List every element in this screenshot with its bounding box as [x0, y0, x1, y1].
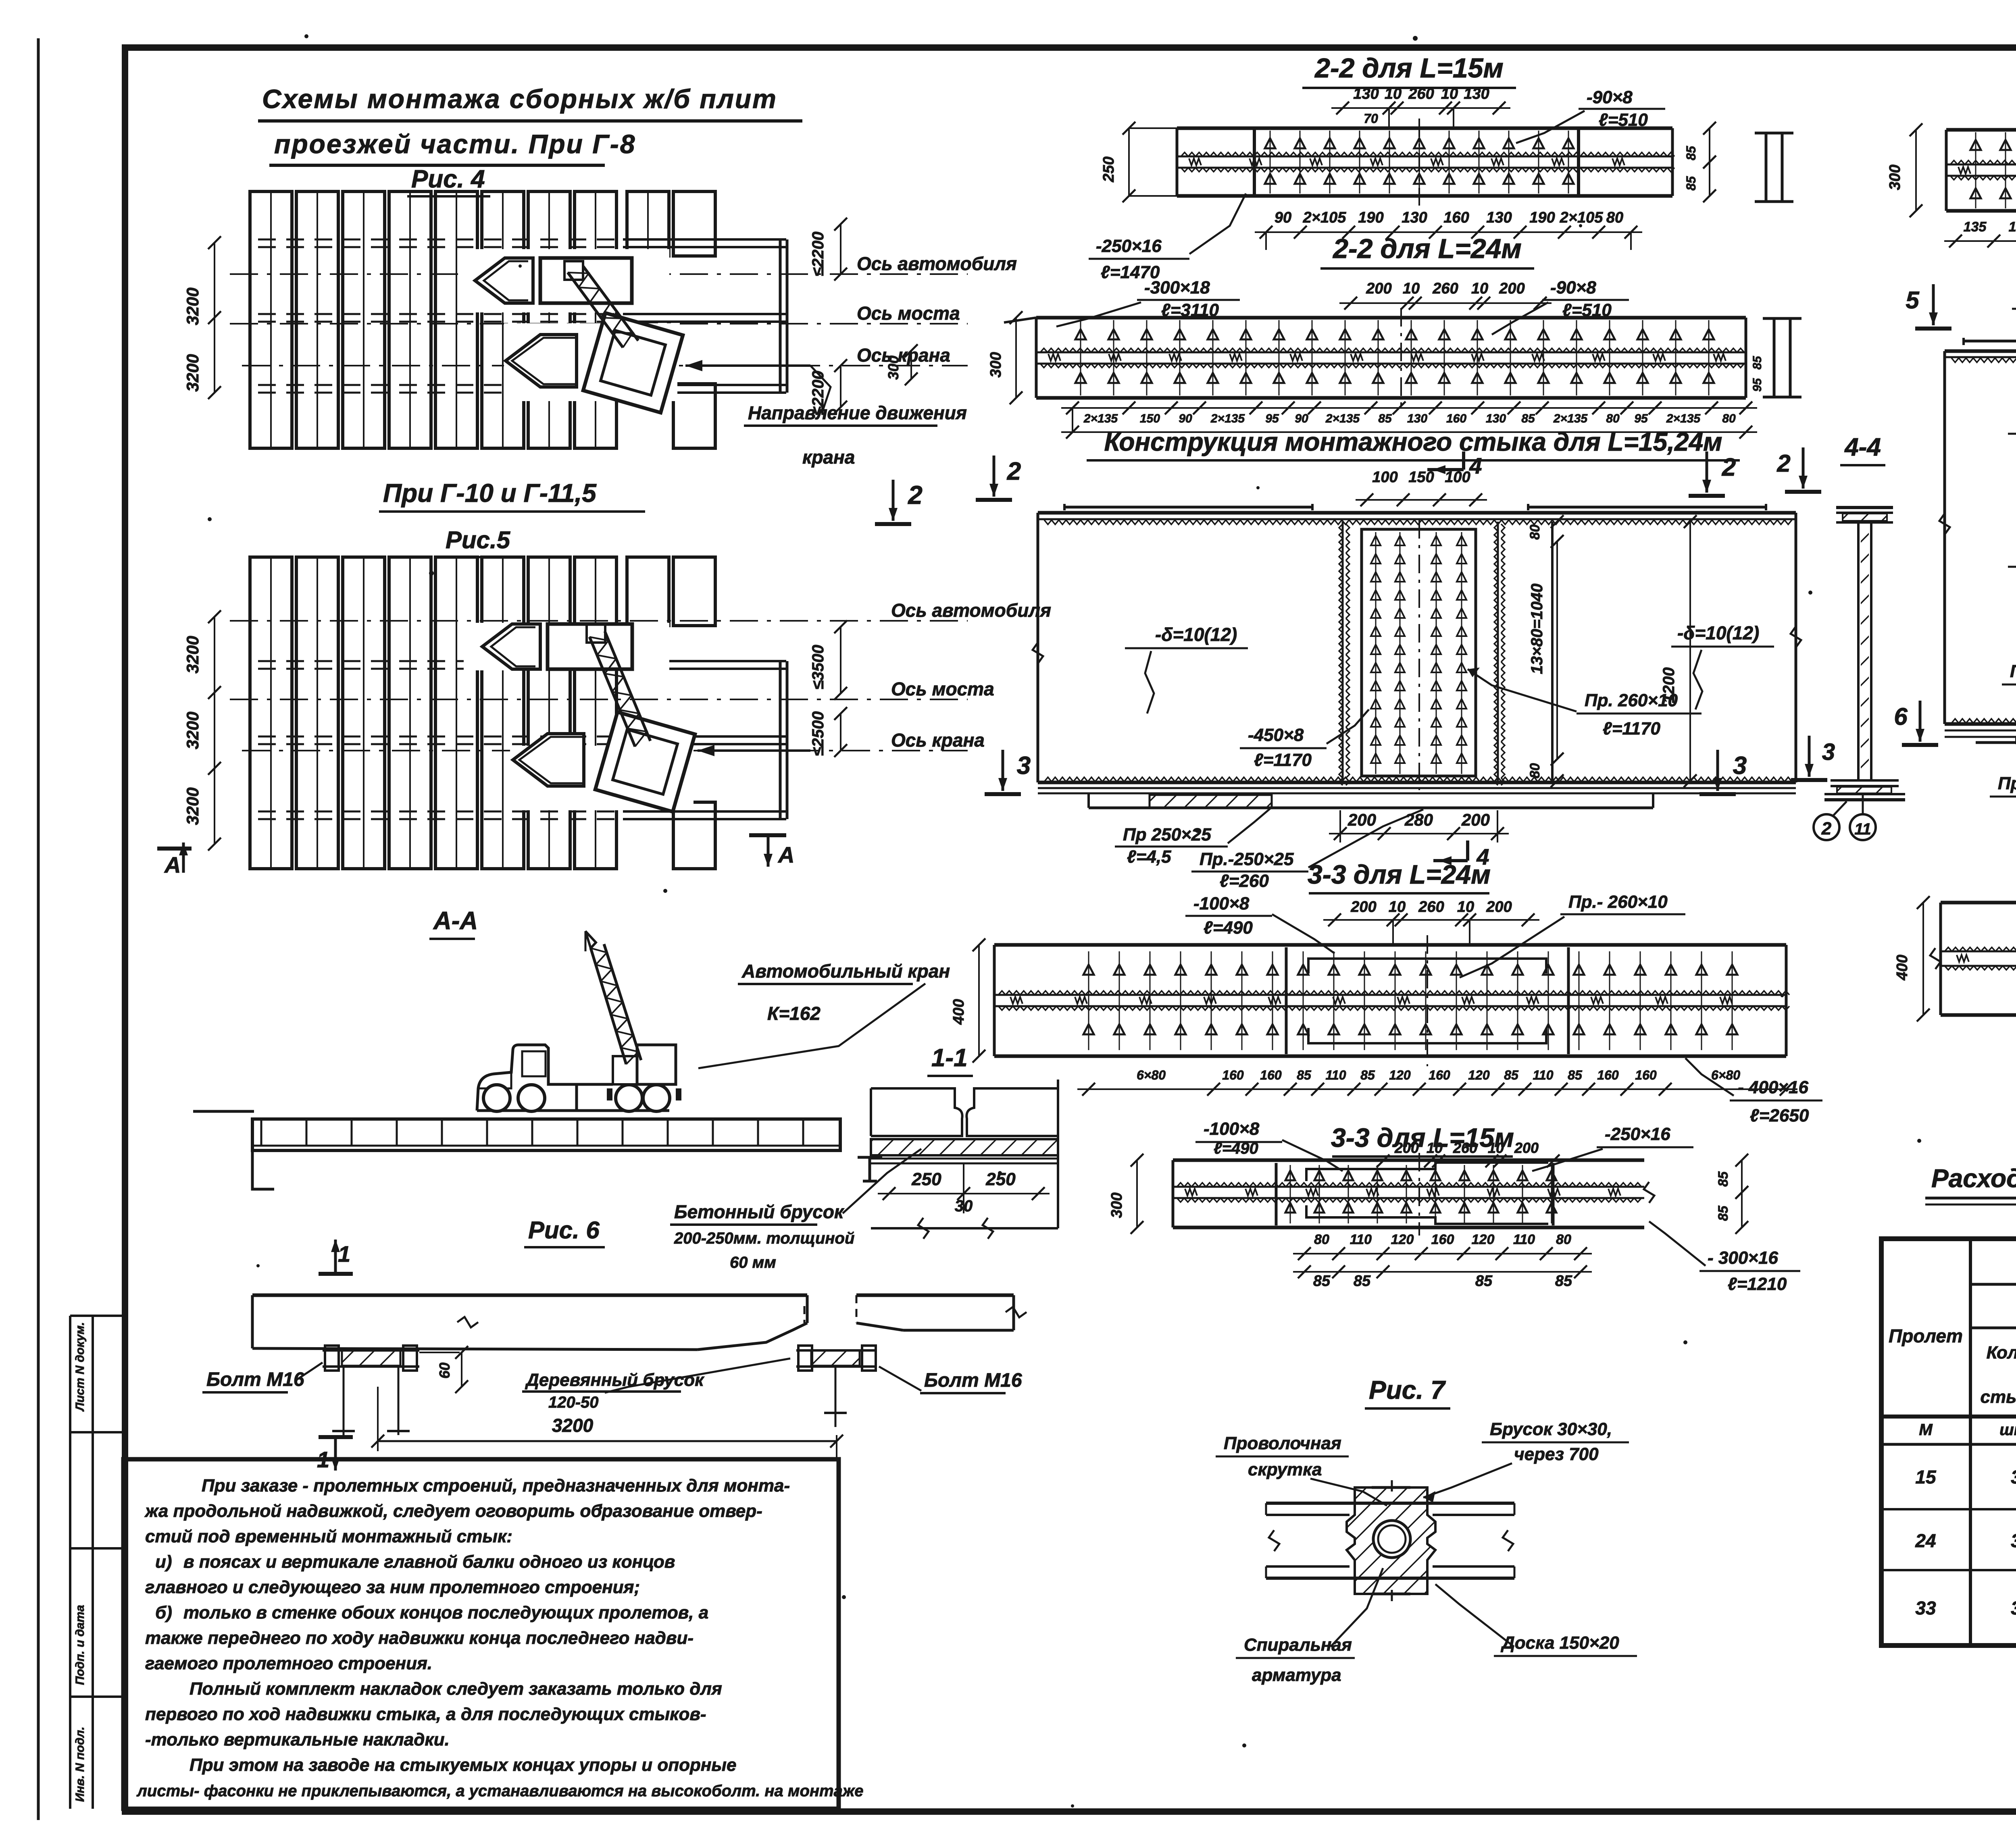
svg-text:85: 85: [1684, 146, 1698, 160]
svg-text:Рис. 6: Рис. 6: [528, 1217, 600, 1244]
svg-text:Рис.5: Рис.5: [446, 526, 511, 553]
svg-text:1: 1: [338, 1241, 350, 1267]
svg-text:ℓ=4,5: ℓ=4,5: [1127, 847, 1171, 867]
svg-text:2: 2: [1821, 819, 1832, 838]
fig6 right bolt assembly: [796, 1346, 876, 1427]
svg-text:11: 11: [1854, 820, 1871, 838]
svg-text:200: 200: [1461, 810, 1490, 829]
section mark 5 left: [1915, 327, 1951, 331]
svg-text:Полный комплект накладок: Полный комплект накладок следует заказат…: [190, 1679, 722, 1699]
crane truck elevation: [477, 931, 681, 1111]
section 1-1 slabs: [871, 1080, 1058, 1228]
svg-text:гаемого пролетного строе: гаемого пролетного строения.: [145, 1654, 432, 1673]
svg-text:А-А: А-А: [433, 907, 478, 935]
svg-text:ℓ=2650: ℓ=2650: [1750, 1106, 1809, 1125]
label -250x16 l=1470: [1089, 193, 1246, 282]
svg-text:главного и следующего за: главного и следующего за ним пролетного …: [145, 1577, 640, 1597]
svg-text:60: 60: [436, 1363, 453, 1379]
section 2-2 L=24 dims above: [1339, 280, 1552, 310]
svg-text:85: 85: [1313, 1273, 1331, 1290]
svg-text:300: 300: [987, 352, 1004, 377]
section mark 4 bottom: [1433, 840, 1489, 870]
svg-text:260: 260: [1453, 1140, 1477, 1156]
svg-text:крана: крана: [802, 447, 855, 468]
svg-text:1200: 1200: [1660, 668, 1678, 703]
svg-text:110: 110: [1325, 1068, 1346, 1082]
section mark 3 left: [985, 792, 1021, 796]
svg-text:Доска 150×20: Доска 150×20: [1500, 1633, 1619, 1653]
svg-text:110: 110: [1513, 1232, 1535, 1247]
fig6 bolt label right: [879, 1367, 1022, 1393]
fig6 section mark 1 top: [319, 1239, 353, 1276]
svg-text:2×135: 2×135: [1083, 412, 1118, 425]
svg-text:250: 250: [1100, 156, 1117, 182]
svg-text:Ось моста: Ось моста: [891, 678, 994, 699]
svg-text:10: 10: [1403, 280, 1420, 297]
svg-text:150: 150: [1140, 412, 1160, 425]
svg-text:ℓ=490: ℓ=490: [1214, 1140, 1258, 1157]
svg-text:Спиральная: Спиральная: [1244, 1635, 1352, 1655]
svg-text:Лист N докум.: Лист N докум.: [73, 1322, 87, 1412]
section 3-3 L=15 strip: [1173, 1153, 1654, 1236]
svg-text:200-250мм. толщиной: 200-250мм. толщиной: [674, 1229, 854, 1247]
label -b=10(12) right: [1671, 622, 1774, 709]
2-2 L15 end section: [1755, 133, 1793, 202]
svg-text:2: 2: [1722, 453, 1736, 481]
svg-text:85: 85: [1684, 176, 1698, 191]
svg-text:200: 200: [1347, 810, 1376, 829]
svg-text:3: 3: [1017, 752, 1031, 780]
svg-text:10: 10: [1457, 899, 1474, 915]
svg-text:200: 200: [1394, 1140, 1419, 1156]
svg-text:200: 200: [1514, 1140, 1539, 1156]
svg-text:160: 160: [1429, 1068, 1450, 1082]
svg-text:150: 150: [1408, 469, 1434, 486]
svg-text:80: 80: [1556, 1232, 1571, 1247]
svg-text:4: 4: [1469, 453, 1482, 478]
fig4 right dimensions: [809, 218, 918, 415]
fig4 truck: [475, 258, 632, 303]
dim 13x80=1040 rotated: [1528, 535, 1564, 766]
svg-text:3: 3: [1733, 752, 1747, 780]
svg-text:200: 200: [1366, 280, 1391, 297]
fig4 crane travel arrow: [685, 360, 831, 411]
svg-text:Брусок 30×30,: Брусок 30×30,: [1490, 1419, 1612, 1439]
2-2 L15 left dim 250: [1100, 122, 1177, 202]
fig6 left beam: [252, 1295, 807, 1350]
svg-text:80: 80: [1722, 412, 1736, 425]
section mark A right: [749, 835, 794, 867]
fig5 left dimensions 3200x3: [183, 610, 221, 851]
svg-text:б): б): [155, 1603, 172, 1623]
section 2 mark near 4-4: [1785, 490, 1821, 494]
label -90x8 l=510 (2-2 L24): [1492, 278, 1629, 335]
svg-text:60 мм: 60 мм: [730, 1254, 776, 1271]
svg-text:300: 300: [1108, 1192, 1125, 1218]
svg-text:80: 80: [1527, 763, 1543, 778]
svg-text:Болт М16: Болт М16: [206, 1369, 304, 1390]
section 4-4 drawing: [1824, 508, 1905, 800]
section 5-5 strip: [1946, 120, 2016, 221]
svg-text:200: 200: [1486, 899, 1512, 915]
3-3 L15 right dims 85 85: [1716, 1154, 1748, 1234]
section 2-2 L=15 dims above: [1331, 85, 1510, 128]
fig4 plate grid: [250, 191, 715, 448]
svg-text:Проволочная: Проволочная: [1224, 1433, 1341, 1453]
fig5 axis auto: [230, 620, 968, 622]
fig6 60 dim: [419, 1346, 468, 1393]
svg-text:Рис. 4: Рис. 4: [411, 165, 485, 193]
section 3-3 L=24 dims above: [1323, 899, 1539, 945]
svg-text:≤3500: ≤3500: [809, 645, 827, 690]
section mark 2 left: [976, 498, 1012, 502]
svg-text:4-4: 4-4: [1844, 433, 1881, 461]
svg-text:Ось автомобиля: Ось автомобиля: [857, 253, 1017, 274]
callout circles 2 and 11: [1814, 795, 1876, 840]
fig6 right beam: [856, 1295, 1027, 1330]
svg-text:3-3 для L=24м: 3-3 для L=24м: [1308, 859, 1491, 889]
svg-text:шт.: шт.: [1999, 1421, 2016, 1439]
svg-text:ℓ=3110: ℓ=3110: [1161, 300, 1219, 320]
table header texts: [1889, 1253, 2016, 1439]
fig7 label spiral reinforcement: [1236, 1568, 1383, 1685]
fig4 axis auto: [230, 273, 968, 275]
svg-text:260: 260: [1418, 899, 1444, 915]
svg-text:Бетонный брусок: Бетонный брусок: [674, 1201, 845, 1222]
svg-text:- 400×16: - 400×16: [1738, 1078, 1808, 1097]
section 3-3 L=24 dims below: [1077, 1068, 1797, 1096]
svg-text:130: 130: [1402, 209, 1427, 226]
splice L=33 bottom plates: [1976, 738, 2016, 748]
svg-text:Расход: Расход: [1931, 1164, 2016, 1193]
label Pr -250x25 l=260: [1191, 809, 1423, 891]
svg-text:2: 2: [1007, 458, 1021, 485]
svg-text:3200: 3200: [183, 711, 202, 749]
fig5 guide rails: [258, 661, 787, 819]
fig6 section mark 1 bottom: [317, 1435, 353, 1472]
svg-text:листы- фасонки не приклепыва: листы- фасонки не приклепываются, а уста…: [136, 1782, 864, 1800]
fig5 crane travel arrow: [698, 745, 810, 756]
svg-text:-только вертикальные накла: -только вертикальные накладки.: [145, 1730, 450, 1749]
section 3-3 L=15 dims below: [1293, 1232, 1592, 1290]
svg-text:33: 33: [1915, 1598, 1936, 1618]
svg-text:85: 85: [1716, 1171, 1731, 1187]
svg-text:10: 10: [1488, 1140, 1504, 1156]
svg-text:ℓ=1210: ℓ=1210: [1728, 1274, 1787, 1294]
section mark 3 right: [1699, 792, 1736, 796]
svg-text:80: 80: [1606, 412, 1620, 425]
section 1-1 concrete layer: [871, 1139, 1058, 1155]
svg-text:-450×8: -450×8: [1248, 725, 1304, 745]
section 6-6 strip: [1930, 893, 2016, 1026]
svg-text:А: А: [777, 842, 794, 867]
svg-text:При Г-10 и Г-11,5: При Г-10 и Г-11,5: [383, 478, 597, 508]
svg-text:-250×16: -250×16: [1605, 1124, 1670, 1144]
fig4 axis bridge: [230, 323, 968, 325]
fig5 crane: [513, 624, 695, 812]
fig5 truck: [482, 624, 632, 669]
svg-text:160: 160: [1443, 209, 1469, 226]
svg-text:стий под временный монтажны: стий под временный монтажный стык:: [145, 1527, 512, 1546]
notes box: [123, 1459, 839, 1809]
svg-text:3: 3: [1822, 739, 1835, 765]
splice L=15,24 top dims: [1356, 469, 1487, 506]
svg-text:85: 85: [1378, 412, 1392, 425]
svg-text:Автомобильный кран: Автомобильный кран: [741, 961, 950, 982]
svg-text:Схемы монтажа сборных ж/б: Схемы монтажа сборных ж/б плит: [262, 84, 777, 114]
label -b=10(12) left: [1125, 624, 1248, 714]
svg-text:120: 120: [1468, 1068, 1490, 1082]
svg-text:-250×16: -250×16: [1096, 236, 1162, 256]
svg-text:85: 85: [1475, 1273, 1493, 1290]
svg-text:3200: 3200: [183, 354, 202, 391]
svg-text:160: 160: [1222, 1068, 1244, 1082]
label -100x8 l=490 (3-3 L15): [1195, 1119, 1343, 1171]
fig6 wooden bar label: [522, 1358, 790, 1411]
fig5 axis labels: [891, 600, 1051, 751]
fig5 right dimensions: [809, 620, 847, 757]
fig7 label board 150x20: [1435, 1584, 1637, 1656]
svg-text:80: 80: [1527, 524, 1543, 540]
fig5 plate grid: [250, 557, 715, 869]
svg-text:100: 100: [1445, 469, 1470, 486]
fig6 bolt label left: [202, 1363, 323, 1392]
svg-text:90: 90: [1295, 412, 1308, 425]
svg-text:80: 80: [1606, 209, 1623, 226]
fig4 guide rails: [258, 239, 787, 393]
svg-text:200: 200: [1350, 899, 1376, 915]
svg-text:6: 6: [1894, 703, 1908, 730]
svg-text:3200: 3200: [183, 287, 202, 325]
section mark 4 top: [1427, 451, 1482, 478]
svg-text:30: 30: [955, 1197, 973, 1215]
svg-text:85: 85: [1360, 1068, 1375, 1082]
fig4 axis labels: [857, 253, 1017, 366]
svg-text:Пр.- 260×10: Пр.- 260×10: [1568, 892, 1668, 912]
svg-text:Направление движения: Направление движения: [748, 402, 967, 423]
svg-text:проезжей части. При Г-8: проезжей части. При Г-8: [274, 129, 636, 159]
label Pr 260x10 l=1170: [1468, 668, 1702, 738]
svg-text:85: 85: [1521, 412, 1535, 425]
deck left support: [252, 1150, 274, 1189]
svg-text:6×80: 6×80: [1711, 1068, 1740, 1082]
svg-text:2: 2: [1776, 450, 1790, 477]
fig4 axis crane: [242, 365, 968, 366]
svg-text:200: 200: [1499, 280, 1524, 297]
svg-text:160: 160: [1635, 1068, 1657, 1082]
label -300x18 l=3110: [1056, 278, 1240, 327]
label -450x8 l=1170: [1240, 709, 1369, 770]
splice L=15,24 body: [1033, 504, 1801, 793]
svg-text:-100×8: -100×8: [1193, 894, 1250, 913]
svg-text:3200: 3200: [183, 636, 202, 673]
table data rows: [1915, 1467, 2016, 1618]
svg-text:через 700: через 700: [1514, 1444, 1599, 1464]
svg-text:85: 85: [1568, 1068, 1583, 1082]
crane label: [698, 961, 950, 1068]
svg-text:ℓ=510: ℓ=510: [1599, 110, 1648, 130]
svg-text:- 300×16: - 300×16: [1708, 1248, 1778, 1268]
section 1-1 bottom lines: [871, 1159, 1058, 1239]
fig7 slab bars: [1266, 1503, 1514, 1578]
svg-text:стыков: стыков: [1981, 1387, 2016, 1407]
svg-text:3: 3: [2011, 1598, 2016, 1618]
dim 80 rotated bottom: [1527, 753, 1564, 787]
fig7 center block: [1347, 1480, 1435, 1601]
svg-text:ℓ=1170: ℓ=1170: [1254, 750, 1312, 770]
svg-text:М: М: [1919, 1421, 1933, 1439]
svg-text:85: 85: [1716, 1205, 1731, 1221]
svg-text:первого по ход надвижки: первого по ход надвижки стыка, а для пос…: [145, 1704, 706, 1724]
label -300x16 l=1210 (3-3 L15): [1649, 1221, 1800, 1294]
label -400x16 l=2650: [1685, 1058, 1822, 1125]
svg-text:Ось автомобиля: Ось автомобиля: [891, 600, 1051, 621]
svg-text:арматура: арматура: [1252, 1665, 1341, 1685]
svg-text:-90×8: -90×8: [1587, 87, 1633, 107]
svg-text:2×135: 2×135: [1553, 412, 1588, 425]
svg-text:95: 95: [1634, 412, 1648, 425]
fig4 crane: [506, 261, 683, 413]
svg-text:3200: 3200: [183, 787, 202, 825]
svg-text:280: 280: [1404, 810, 1433, 829]
svg-text:85: 85: [1504, 1068, 1519, 1082]
section mark 3 near 4-4: [1791, 778, 1827, 782]
svg-text:300: 300: [885, 356, 902, 380]
svg-text:2-2 для L=24м: 2-2 для L=24м: [1332, 233, 1522, 264]
svg-text:Болт М16: Болт М16: [924, 1370, 1022, 1391]
svg-text:130: 130: [1464, 85, 1489, 102]
fig5 axis bridge: [230, 699, 968, 700]
svg-text:также переднего по ходу на: также переднего по ходу надвижки конца п…: [145, 1628, 694, 1648]
section 3-3 L=24 strip: [994, 935, 1789, 1066]
metal consumption title: [1925, 1164, 2016, 1204]
svg-text:160: 160: [1431, 1232, 1454, 1247]
svg-text:130: 130: [1486, 209, 1512, 226]
svg-text:и): и): [155, 1552, 172, 1572]
svg-text:Подп. и дата: Подп. и дата: [73, 1605, 87, 1685]
svg-text:260: 260: [1432, 280, 1458, 297]
svg-text:Рис. 7: Рис. 7: [1369, 1375, 1446, 1404]
svg-text:-90×8: -90×8: [1550, 278, 1596, 297]
splice L=15,24 bottom plates: [1089, 793, 1653, 808]
svg-text:5: 5: [1906, 287, 1920, 314]
svg-text:90: 90: [1179, 412, 1192, 425]
svg-text:85: 85: [1751, 356, 1764, 370]
svg-text:скрутка: скрутка: [1248, 1460, 1322, 1479]
svg-text:≤2200: ≤2200: [809, 232, 827, 277]
svg-text:ℓ=1170: ℓ=1170: [1603, 719, 1661, 738]
left stamp column: [69, 1316, 71, 1809]
svg-text:Пр.- 250×25: Пр.- 250×25: [1998, 774, 2016, 793]
svg-text:120-50: 120-50: [548, 1394, 599, 1411]
svg-text:2×135: 2×135: [1666, 412, 1701, 425]
fig7 label wire twist: [1216, 1433, 1387, 1506]
svg-text:130: 130: [1486, 412, 1506, 425]
svg-text:260: 260: [1408, 85, 1434, 102]
svg-text:-δ=10(12): -δ=10(12): [1155, 624, 1237, 645]
label Pr-250x25 (L33 bottom): [1990, 744, 2016, 797]
svg-text:400: 400: [1894, 955, 1911, 980]
section 1-1 dims: [878, 1163, 1050, 1215]
section 2-2 L=24 strip: [1004, 308, 1746, 408]
svg-text:190: 190: [2009, 219, 2016, 235]
svg-text:К=162: К=162: [767, 1003, 821, 1024]
svg-text:Инв. N подл.: Инв. N подл.: [73, 1727, 87, 1802]
concrete bar label: [670, 1149, 921, 1271]
svg-text:3200: 3200: [552, 1415, 594, 1436]
svg-text:3: 3: [2011, 1467, 2016, 1487]
svg-text:160: 160: [1446, 412, 1466, 425]
svg-text:120: 120: [1472, 1232, 1495, 1247]
svg-text:90: 90: [1275, 209, 1291, 226]
label Pr 250x25 bottom-left: [1115, 809, 1270, 867]
svg-text:в поясах и вертикале главно: в поясах и вертикале главной балки одног…: [183, 1552, 675, 1572]
svg-text:Ось крана: Ось крана: [891, 730, 985, 751]
svg-text:85: 85: [1354, 1273, 1371, 1290]
fig4 left dimension 3200x2: [183, 236, 221, 399]
splice L=33 body: [1939, 338, 2016, 737]
svg-text:15: 15: [1915, 1467, 1937, 1487]
svg-text:2×135: 2×135: [1325, 412, 1360, 425]
svg-text:1-1: 1-1: [931, 1044, 968, 1072]
svg-text:Ось моста: Ось моста: [857, 303, 960, 324]
section mark 6 left: [1902, 743, 1938, 747]
2-2 L24 left dim 300: [987, 311, 1023, 404]
dim 1200 rotated: [1660, 515, 1697, 787]
svg-text:95: 95: [1751, 378, 1764, 392]
label -250x16 (3-3 L15): [1532, 1124, 1693, 1171]
svg-text:Пролет: Пролет: [1889, 1325, 1963, 1346]
svg-text:ℓ=260: ℓ=260: [1220, 871, 1269, 891]
svg-text:24: 24: [1915, 1530, 1936, 1551]
svg-text:10: 10: [1471, 280, 1488, 297]
3-3 L24 left dim 400: [950, 938, 985, 1063]
svg-text:Пр - 260×12: Пр - 260×12: [2010, 662, 2016, 681]
2-2 L24 end section: [1751, 318, 1801, 397]
svg-text:300: 300: [1887, 164, 1904, 190]
fig7 label bar 30x30: [1423, 1419, 1629, 1502]
section 3-3 L=15 dims above: [1372, 1140, 1564, 1167]
svg-text:-100×8: -100×8: [1204, 1119, 1260, 1139]
svg-text:При этом на заводе на сты: При этом на заводе на стыкуемых концах у…: [190, 1755, 736, 1775]
svg-text:Кол-во: Кол-во: [1987, 1343, 2016, 1363]
2-2 L15 right end dims: [1684, 122, 1716, 202]
svg-text:только в стенке обоих конц: только в стенке обоих концов последующих…: [183, 1603, 708, 1623]
svg-text:2: 2: [908, 481, 923, 510]
splice L=15,24 rivet field: [1362, 520, 1476, 790]
svg-text:10: 10: [1385, 85, 1402, 102]
notes text: [136, 1476, 864, 1800]
svg-text:2×135: 2×135: [1210, 412, 1245, 425]
svg-text:ℓ=490: ℓ=490: [1204, 918, 1253, 938]
dim 80 rotated top: [1527, 515, 1564, 548]
svg-text:85: 85: [1555, 1273, 1572, 1290]
section mark 2 near fig5: [875, 522, 911, 526]
fig4 direction label: [744, 402, 967, 468]
fig5 erected zone masks: [464, 623, 694, 810]
section mark A left: [157, 842, 192, 878]
svg-text:85: 85: [1297, 1068, 1312, 1082]
svg-text:110: 110: [1350, 1232, 1372, 1247]
svg-text:120: 120: [1389, 1068, 1411, 1082]
svg-text:10: 10: [1441, 85, 1458, 102]
svg-text:2×105: 2×105: [1560, 209, 1604, 226]
svg-text:70: 70: [1364, 111, 1378, 126]
label -450x8 l=1690: [2008, 411, 2016, 476]
svg-text:120: 120: [1391, 1232, 1414, 1247]
svg-text:При заказе - пролетных строени: При заказе - пролетных строений, предназ…: [202, 1476, 790, 1496]
section 2-2 L=15 dims below: [1255, 209, 1642, 250]
